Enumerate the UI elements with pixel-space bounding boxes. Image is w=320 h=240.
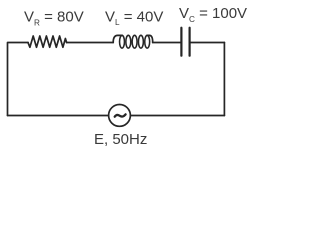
capacitor C (VC) right plate (189, 28, 191, 56)
wire inductor to capacitor (153, 42, 181, 44)
wire bottom right segment (130, 115, 224, 117)
inductor L (VL) lead-in hump (113, 35, 122, 42)
source sine tilde (115, 114, 126, 116)
wire bottom left segment (8, 115, 109, 117)
wire resistor to inductor (67, 42, 114, 44)
inductor loop 5 (145, 35, 150, 48)
source E circle (109, 105, 131, 127)
svg-text:VR = 80V: VR = 80V (24, 9, 84, 28)
svg-text:E, 50Hz: E, 50Hz (94, 131, 147, 148)
capacitor C (VC) left plate (180, 28, 182, 56)
inductor loop 1 (120, 35, 125, 48)
svg-text:VL = 40V: VL = 40V (105, 8, 163, 27)
inductor loop 2 (126, 35, 131, 48)
inductor loop 4 (138, 35, 143, 48)
wire right vertical (223, 43, 225, 116)
wire left vertical + top-left lead (8, 43, 29, 116)
inductor loop 3 (132, 35, 137, 48)
svg-text:VC = 100V: VC = 100V (179, 5, 247, 24)
wire capacitor to top-right corner (191, 42, 225, 44)
inductor lead-out hump (147, 35, 153, 42)
resistor R (VR) zigzag (28, 36, 67, 47)
